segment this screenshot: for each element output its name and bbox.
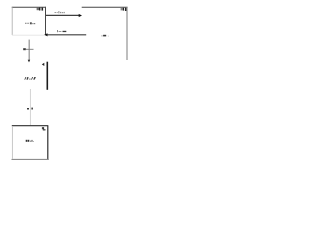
object box B3 bottom edge bbox=[12, 158, 49, 160]
message arrow M2 line (return, to the left) bbox=[47, 34, 87, 36]
object box B3 left edge bbox=[11, 126, 13, 159]
message head into activation bar (points left) bbox=[42, 63, 45, 66]
object box B3 name text (illegible) bbox=[26, 140, 34, 142]
create message arrow down: line bbox=[28, 40, 30, 61]
object box B3 right edge bbox=[47, 126, 49, 160]
activation bar (thick vertical) bbox=[47, 62, 49, 90]
object box B1 name text (illegible at scale) bbox=[25, 22, 35, 24]
object box B1 corner icon bbox=[37, 8, 44, 11]
create message label crossing the arrow bbox=[23, 48, 33, 50]
object box B1 left edge bbox=[11, 7, 13, 35]
tiny label on lifeline bbox=[27, 108, 33, 110]
message arrow M1 head bbox=[79, 14, 82, 17]
message arrow M1 line (to the right) bbox=[46, 14, 80, 16]
message arrow M2 head (points left) bbox=[44, 33, 47, 36]
message M2 label (illegible) bbox=[57, 30, 66, 32]
object box B3 top edge bbox=[12, 125, 48, 127]
object box B3 corner icon bbox=[42, 127, 46, 130]
object box B1 top edge bbox=[12, 6, 46, 8]
message M1 label (illegible) bbox=[55, 11, 65, 13]
object box B2 corner icon bbox=[121, 8, 127, 11]
object box B1 bottom edge bbox=[12, 34, 46, 36]
create message arrow down: head bbox=[28, 60, 31, 63]
object box B2 top edge bbox=[82, 6, 128, 8]
object box B2 name text (illegible) bbox=[102, 35, 109, 37]
object box B2 right edge / lifeline bbox=[126, 7, 128, 60]
object box B1 right edge bbox=[45, 7, 47, 36]
stereotype text on link (illegible italic) bbox=[24, 77, 36, 80]
lifeline to bottom box bbox=[29, 89, 31, 125]
